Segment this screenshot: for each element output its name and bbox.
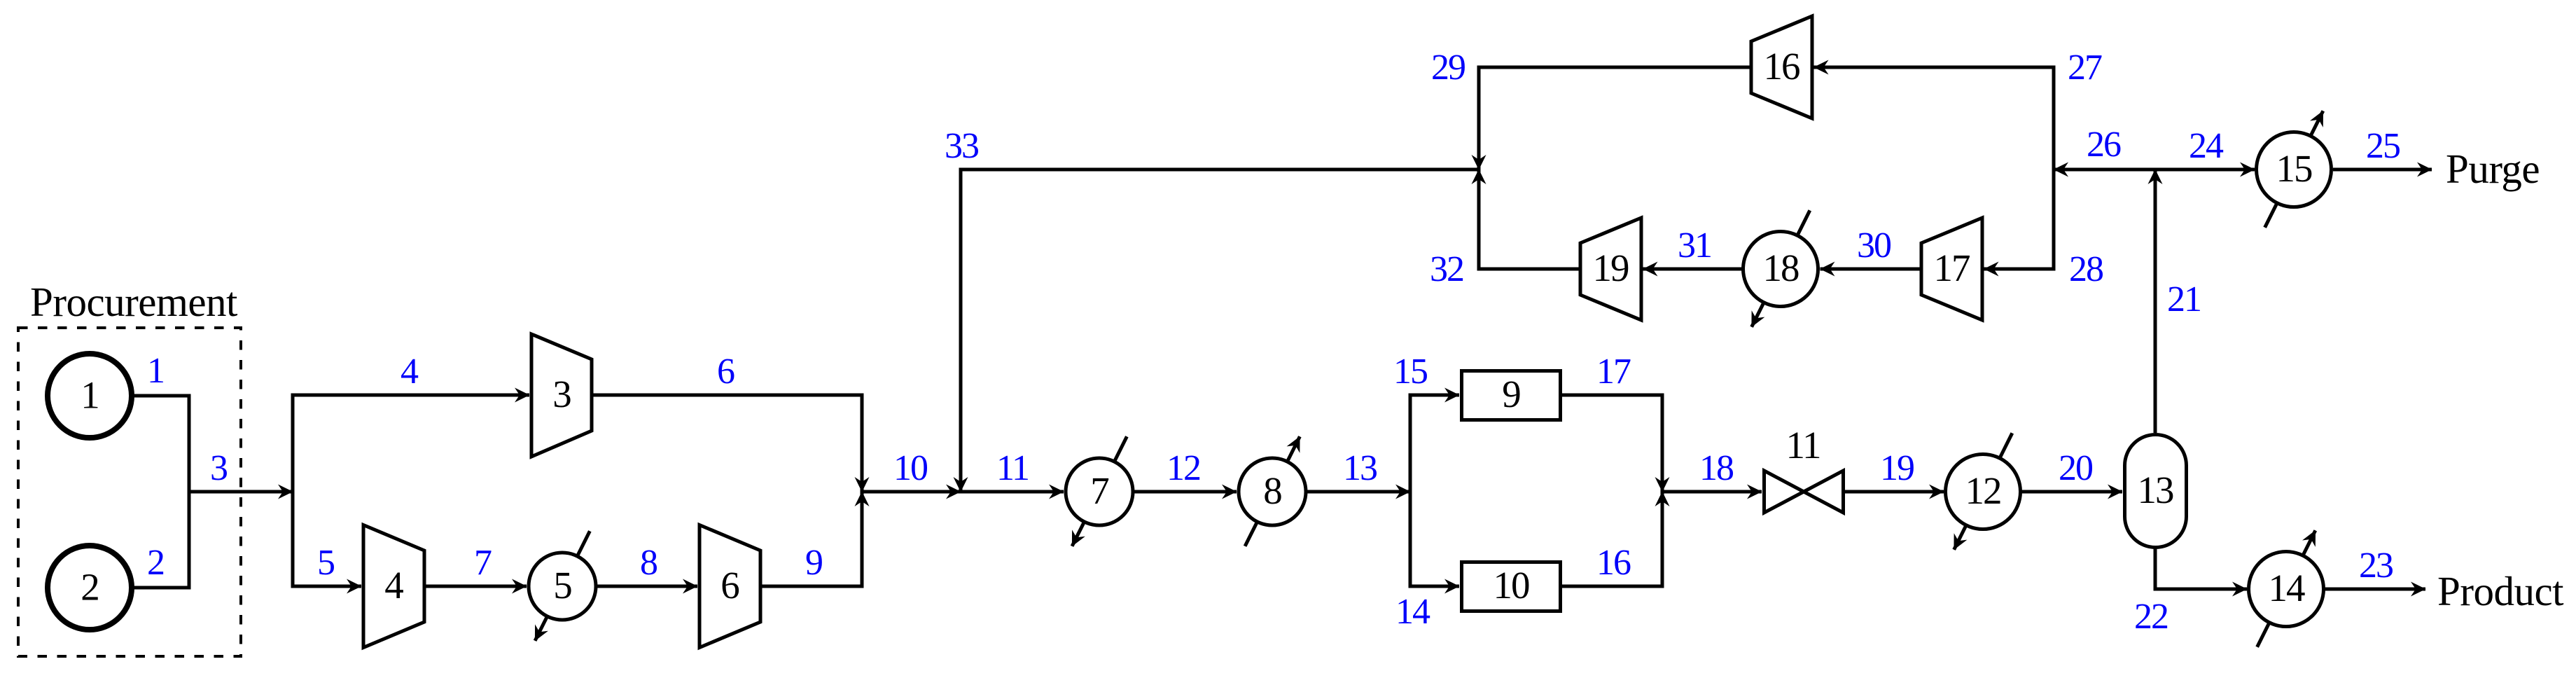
wire feed header vertical — [188, 394, 191, 590]
compressor 6 — [699, 525, 760, 648]
svg-text:18: 18 — [1763, 247, 1799, 289]
flash vessel 13 — [2125, 435, 2187, 548]
svg-text:4: 4 — [384, 564, 403, 607]
cooler 7 — [1066, 458, 1133, 525]
wire stream 31 — [1643, 268, 1743, 271]
wire stream 21 — [2154, 169, 2157, 433]
wire stream 25 — [2333, 168, 2432, 172]
svg-text:14: 14 — [1395, 592, 1430, 632]
heater 15 — [2257, 132, 2332, 207]
wire stream 7 — [424, 585, 527, 588]
wire stream 27 and recycle header — [1814, 67, 2054, 269]
svg-text:10: 10 — [1494, 564, 1530, 607]
svg-text:1: 1 — [81, 374, 99, 417]
svg-text:12: 12 — [1167, 448, 1200, 488]
svg-text:Procurement: Procurement — [30, 279, 238, 325]
svg-text:7: 7 — [474, 543, 492, 583]
svg-text:12: 12 — [1965, 469, 2001, 512]
svg-text:5: 5 — [553, 564, 571, 607]
wire stream 16 — [1562, 492, 1662, 586]
svg-text:15: 15 — [1393, 352, 1427, 392]
svg-text:25: 25 — [2366, 126, 2400, 166]
wire split vertical node A — [291, 394, 295, 588]
svg-text:13: 13 — [1343, 448, 1377, 488]
svg-text:Purge: Purge — [2446, 146, 2540, 192]
wire stream 4 — [291, 394, 530, 397]
wire stream 1 — [130, 394, 191, 398]
heater 14 — [2249, 552, 2324, 627]
wire stream 17 — [1562, 395, 1662, 492]
wire stream 10 — [862, 490, 961, 494]
cooler 18 — [1743, 232, 1818, 307]
svg-text:11: 11 — [996, 448, 1029, 488]
svg-text:9: 9 — [1502, 373, 1520, 415]
compressor 16 — [1751, 16, 1812, 118]
wire stream 28 — [1984, 268, 2056, 271]
svg-text:8: 8 — [1263, 469, 1281, 512]
wire stream 15 — [1409, 394, 1460, 397]
svg-text:22: 22 — [2134, 597, 2168, 637]
svg-text:26: 26 — [2087, 125, 2121, 165]
svg-text:4: 4 — [401, 352, 419, 392]
svg-text:2: 2 — [81, 566, 99, 609]
cooler 5 — [529, 553, 596, 620]
svg-text:5: 5 — [317, 543, 334, 583]
wire stream 32 — [1479, 169, 1580, 269]
wire stream 8 — [596, 585, 697, 588]
svg-text:16: 16 — [1764, 45, 1800, 88]
source node 2 — [48, 546, 132, 630]
svg-text:3: 3 — [210, 448, 227, 488]
wire stream 22 — [2155, 547, 2247, 589]
svg-text:3: 3 — [552, 373, 571, 415]
compressor 3 — [531, 334, 592, 457]
reactor 9 — [1462, 371, 1561, 420]
svg-text:11: 11 — [1786, 424, 1820, 466]
compressor 17 — [1921, 218, 1982, 320]
wire stream 5 — [291, 585, 362, 588]
svg-text:16: 16 — [1596, 543, 1631, 583]
svg-text:23: 23 — [2359, 546, 2393, 586]
wire stream 2 — [130, 586, 191, 590]
svg-text:15: 15 — [2276, 147, 2313, 190]
wire stream 23 — [2324, 588, 2425, 591]
wire stream 14 — [1409, 585, 1460, 588]
svg-text:7: 7 — [1090, 469, 1108, 512]
cooler 12 — [1946, 455, 2021, 530]
wire stream 6 — [592, 395, 862, 492]
wire stream 24 — [2155, 168, 2255, 172]
svg-text:20: 20 — [2059, 448, 2093, 488]
source node 1 — [48, 354, 132, 438]
wire stream 19 — [1845, 490, 1944, 494]
svg-text:17: 17 — [1596, 352, 1631, 392]
procurement dashed box — [18, 328, 241, 656]
svg-text:29: 29 — [1431, 48, 1465, 88]
wire stream 13 — [1306, 490, 1410, 494]
svg-text:Product: Product — [2437, 568, 2564, 614]
svg-text:21: 21 — [2167, 279, 2201, 319]
svg-text:27: 27 — [2068, 48, 2102, 88]
svg-text:14: 14 — [2269, 567, 2306, 609]
svg-text:30: 30 — [1857, 226, 1891, 265]
valve 11 — [1764, 471, 1844, 513]
wire stream 20 — [2021, 490, 2122, 494]
svg-text:1: 1 — [147, 351, 164, 391]
svg-text:17: 17 — [1934, 247, 1970, 289]
svg-text:31: 31 — [1678, 226, 1711, 265]
wire split vertical node C — [1409, 394, 1412, 588]
wire stream 33 — [961, 169, 1481, 492]
compressor 4 — [363, 525, 424, 648]
wire stream 26 — [2054, 168, 2155, 172]
svg-text:10: 10 — [893, 448, 928, 488]
reactor 10 — [1462, 562, 1561, 611]
svg-text:19: 19 — [1593, 247, 1629, 289]
heater 8 — [1239, 458, 1306, 525]
svg-text:32: 32 — [1430, 249, 1463, 289]
svg-text:2: 2 — [147, 543, 164, 583]
wire stream 29 — [1479, 67, 1751, 169]
svg-text:9: 9 — [805, 543, 822, 583]
svg-text:13: 13 — [2138, 469, 2174, 511]
svg-text:33: 33 — [945, 126, 978, 166]
svg-text:28: 28 — [2069, 249, 2103, 289]
compressor 19 — [1580, 218, 1641, 320]
wire stream 12 — [1133, 490, 1237, 494]
svg-text:18: 18 — [1699, 448, 1734, 488]
wire stream 11 — [961, 490, 1064, 494]
wire stream 18 — [1662, 490, 1762, 494]
svg-text:6: 6 — [717, 352, 734, 392]
svg-text:19: 19 — [1880, 448, 1914, 488]
wire stream 30 — [1820, 268, 1922, 271]
wire stream 3 — [189, 490, 293, 494]
svg-text:8: 8 — [640, 543, 657, 583]
svg-text:24: 24 — [2189, 126, 2224, 166]
svg-text:6: 6 — [720, 564, 739, 607]
wire stream 9 — [760, 492, 862, 586]
